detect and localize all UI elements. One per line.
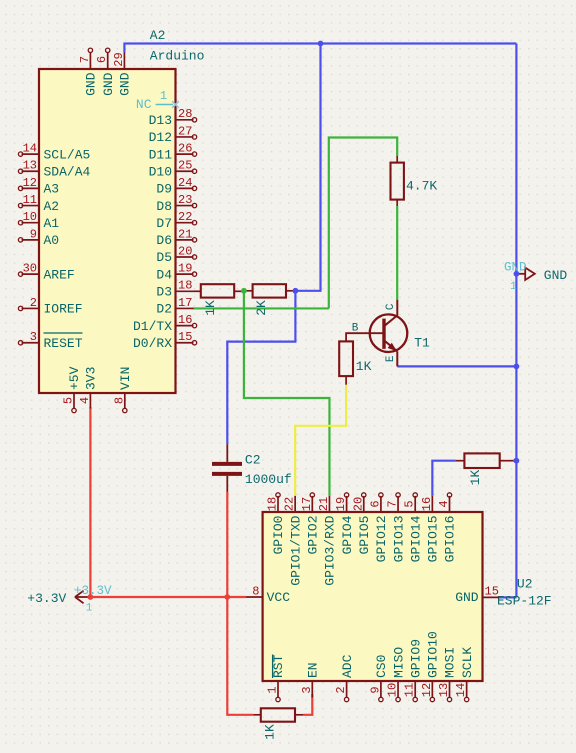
power +3.3V symbol bbox=[75, 591, 90, 604]
wire GND net mid vertical bbox=[319, 44, 321, 291]
wire divider tap to GPIO3/RXD bbox=[244, 291, 330, 496]
svg-text:U2: U2 bbox=[517, 577, 533, 592]
IC U2 ESP-12F body bbox=[263, 512, 483, 681]
svg-text:17: 17 bbox=[300, 497, 314, 511]
svg-text:D10: D10 bbox=[149, 164, 172, 179]
svg-text:GPIO13: GPIO13 bbox=[391, 516, 406, 563]
svg-text:GPIO3/RXD: GPIO3/RXD bbox=[323, 515, 338, 585]
svg-text:4: 4 bbox=[437, 500, 451, 507]
resistor 1K GPIO15 pulldown bbox=[456, 460, 465, 462]
svg-text:11: 11 bbox=[403, 683, 417, 697]
junction divider tap bbox=[241, 288, 247, 294]
wire divider mid to vertical bbox=[295, 290, 321, 292]
svg-text:13: 13 bbox=[437, 683, 451, 697]
svg-text:1K: 1K bbox=[356, 359, 372, 374]
svg-text:26: 26 bbox=[178, 142, 192, 156]
svg-text:IOREF: IOREF bbox=[44, 302, 83, 317]
svg-text:3: 3 bbox=[30, 330, 37, 344]
svg-text:3V3: 3V3 bbox=[84, 367, 99, 390]
pin 12 GPIO10 bbox=[431, 681, 433, 698]
pin 8 VCC bbox=[246, 596, 263, 598]
pin 23 D8 bbox=[176, 205, 194, 207]
svg-text:14: 14 bbox=[454, 683, 468, 697]
svg-text:2K: 2K bbox=[254, 300, 269, 316]
pin 19 D4 bbox=[176, 273, 194, 275]
pin 27 D12 bbox=[176, 136, 194, 138]
pin 11 GPIO9 bbox=[414, 681, 416, 698]
svg-text:6: 6 bbox=[368, 500, 382, 507]
svg-text:21: 21 bbox=[317, 497, 331, 511]
pin 13 SDA/A4 bbox=[22, 170, 40, 172]
svg-text:9: 9 bbox=[30, 227, 37, 241]
svg-text:D3: D3 bbox=[156, 285, 172, 300]
svg-text:RST: RST bbox=[271, 654, 286, 678]
svg-text:10: 10 bbox=[386, 683, 400, 697]
svg-text:13: 13 bbox=[23, 159, 37, 173]
svg-text:D9: D9 bbox=[156, 182, 172, 197]
pin 13 MOSI bbox=[449, 681, 451, 698]
svg-text:28: 28 bbox=[178, 107, 192, 121]
svg-text:SDA/A4: SDA/A4 bbox=[44, 164, 91, 179]
pin 14 SCLK bbox=[466, 681, 468, 698]
svg-text:16: 16 bbox=[420, 497, 434, 511]
wire GND net top horizontal bbox=[124, 42, 516, 44]
svg-text:D12: D12 bbox=[149, 130, 172, 145]
resistor 4.7K bbox=[396, 156, 398, 163]
svg-text:9: 9 bbox=[368, 686, 382, 693]
junction divider mid bbox=[293, 288, 299, 294]
svg-text:+5V: +5V bbox=[67, 366, 82, 390]
junction emitter GND bbox=[514, 364, 520, 370]
svg-text:1000uf: 1000uf bbox=[245, 472, 292, 487]
svg-text:5: 5 bbox=[62, 397, 76, 404]
pin 26 D11 bbox=[176, 153, 194, 155]
svg-text:CS0: CS0 bbox=[374, 655, 389, 678]
svg-text:GPIO4: GPIO4 bbox=[340, 515, 355, 554]
svg-text:4.7K: 4.7K bbox=[406, 178, 437, 193]
svg-text:12: 12 bbox=[23, 176, 37, 190]
pin 17 GPIO2 bbox=[311, 496, 313, 512]
svg-text:1: 1 bbox=[510, 281, 517, 293]
svg-text:D4: D4 bbox=[156, 267, 172, 282]
no-connect X bbox=[172, 101, 179, 108]
junction +3.3V bbox=[88, 594, 94, 600]
svg-text:27: 27 bbox=[178, 124, 192, 138]
pin 14 SCL/A5 bbox=[22, 153, 40, 155]
wire pin29 drop bbox=[123, 43, 125, 53]
svg-text:1: 1 bbox=[160, 89, 167, 103]
pin 24 D9 bbox=[176, 187, 194, 189]
svg-text:14: 14 bbox=[23, 142, 37, 156]
resistor 1K divider top bbox=[194, 290, 201, 292]
svg-text:GPIO2: GPIO2 bbox=[306, 516, 321, 555]
svg-text:20: 20 bbox=[351, 497, 365, 511]
pin 6 GPIO12 bbox=[380, 496, 382, 512]
transistor T1 bbox=[370, 300, 408, 367]
wire D2 to 4.7K bbox=[193, 307, 329, 309]
svg-text:7: 7 bbox=[386, 500, 400, 507]
svg-text:AREF: AREF bbox=[44, 267, 75, 282]
svg-text:A2: A2 bbox=[44, 199, 60, 214]
svg-text:21: 21 bbox=[178, 227, 192, 241]
wire GND to ESP pin15 bbox=[499, 596, 516, 598]
wire emitter to GND bbox=[397, 365, 516, 367]
svg-text:1K: 1K bbox=[468, 470, 483, 486]
svg-text:GPIO12: GPIO12 bbox=[374, 516, 389, 563]
svg-text:24: 24 bbox=[178, 176, 192, 190]
svg-text:1K: 1K bbox=[263, 724, 278, 740]
pin 20 GPIO5 bbox=[363, 496, 365, 512]
svg-text:GPIO1/TXD: GPIO1/TXD bbox=[288, 515, 303, 585]
pin 16 D1/TX bbox=[176, 325, 194, 327]
pin 2 ADC bbox=[346, 681, 348, 698]
capacitor C2 bbox=[212, 444, 242, 492]
svg-text:1K: 1K bbox=[203, 300, 218, 316]
pin 19 GPIO4 bbox=[346, 496, 348, 512]
svg-text:SCLK: SCLK bbox=[460, 647, 475, 678]
svg-text:A1: A1 bbox=[44, 216, 60, 231]
svg-text:SCL/A5: SCL/A5 bbox=[44, 147, 91, 162]
pin 6 GND top bbox=[107, 53, 109, 70]
resistor 1K EN pullup bbox=[253, 714, 260, 716]
wire GPIO15 to R 1K bbox=[432, 461, 456, 496]
svg-text:EN: EN bbox=[306, 662, 321, 678]
wire green up bbox=[329, 138, 397, 309]
pin 8 VIN bottom bbox=[124, 393, 126, 409]
svg-text:30: 30 bbox=[23, 262, 37, 276]
svg-text:19: 19 bbox=[334, 497, 348, 511]
junction GND symbol bbox=[514, 271, 520, 277]
pin 18 GPIO0 bbox=[277, 496, 279, 512]
svg-text:6: 6 bbox=[95, 56, 109, 63]
svg-text:18: 18 bbox=[178, 279, 192, 293]
svg-text:Arduino: Arduino bbox=[150, 49, 205, 64]
svg-text:C2: C2 bbox=[245, 453, 261, 468]
svg-text:ESP-12F: ESP-12F bbox=[497, 594, 552, 609]
junction 1K GND net bbox=[514, 458, 520, 464]
svg-text:T1: T1 bbox=[414, 336, 430, 351]
svg-text:ADC: ADC bbox=[340, 654, 355, 678]
pin 4 3V3 bottom bbox=[89, 393, 91, 409]
pin 22 GPIO1/TXD bbox=[294, 496, 296, 512]
svg-text:2: 2 bbox=[30, 296, 37, 310]
resistor 2K divider bottom bbox=[244, 290, 253, 292]
svg-text:16: 16 bbox=[178, 313, 192, 327]
pin 18 D3 bbox=[176, 290, 194, 292]
svg-text:A3: A3 bbox=[44, 182, 60, 197]
svg-text:C: C bbox=[385, 303, 397, 310]
pin 20 D5 bbox=[176, 256, 194, 258]
svg-text:GPIO15: GPIO15 bbox=[426, 516, 441, 563]
svg-text:D7: D7 bbox=[156, 216, 172, 231]
pin 12 A3 bbox=[22, 187, 40, 189]
pin 25 D10 bbox=[176, 170, 194, 172]
svg-text:GND: GND bbox=[118, 72, 133, 96]
svg-text:MISO: MISO bbox=[391, 647, 406, 678]
wire divider mid to C2 bbox=[227, 291, 295, 444]
svg-text:1: 1 bbox=[86, 603, 93, 615]
svg-text:+3.3V: +3.3V bbox=[27, 591, 66, 606]
pin 16 GPIO15 bbox=[431, 496, 433, 512]
pin 3 EN bbox=[311, 681, 313, 698]
pin 9 A0 bbox=[22, 239, 40, 241]
svg-text:VCC: VCC bbox=[267, 590, 291, 605]
wire +3.3V to VCC bbox=[90, 596, 245, 598]
svg-text:5: 5 bbox=[403, 500, 417, 507]
svg-text:GND: GND bbox=[101, 72, 116, 96]
pin 2 IOREF bbox=[22, 307, 40, 309]
svg-text:29: 29 bbox=[112, 52, 126, 66]
svg-text:D13: D13 bbox=[149, 113, 172, 128]
pin 15 D0/RX bbox=[176, 342, 194, 344]
wire GND net right vertical bbox=[515, 44, 517, 598]
svg-text:8: 8 bbox=[252, 584, 259, 598]
junction VCC bbox=[224, 594, 230, 600]
svg-text:D11: D11 bbox=[149, 147, 173, 162]
wire bottom 1K to EN bbox=[303, 694, 312, 715]
svg-text:22: 22 bbox=[178, 210, 192, 224]
junction top GND net bbox=[318, 41, 324, 47]
svg-text:2: 2 bbox=[334, 686, 348, 693]
svg-text:8: 8 bbox=[112, 397, 126, 404]
pin 11 A2 bbox=[22, 205, 40, 207]
svg-text:D2: D2 bbox=[156, 302, 172, 317]
svg-text:D1/TX: D1/TX bbox=[133, 319, 172, 334]
pin 9 CS0 bbox=[380, 681, 382, 698]
svg-text:25: 25 bbox=[178, 159, 192, 173]
pin 5 +5V bottom bbox=[73, 393, 75, 409]
wire 4.7K to collector bbox=[396, 206, 398, 300]
svg-text:19: 19 bbox=[178, 262, 192, 276]
svg-text:22: 22 bbox=[283, 497, 297, 511]
svg-text:A0: A0 bbox=[44, 233, 60, 248]
svg-text:3: 3 bbox=[300, 686, 314, 693]
svg-text:GPIO0: GPIO0 bbox=[271, 516, 286, 555]
pin 5 GPIO14 bbox=[414, 496, 416, 512]
svg-text:D0/RX: D0/RX bbox=[133, 336, 172, 351]
pin 4 GPIO16 bbox=[449, 496, 451, 512]
svg-text:20: 20 bbox=[178, 244, 192, 258]
svg-text:NC: NC bbox=[136, 97, 152, 112]
wire base resistor to GPIO1/TXD bbox=[295, 385, 346, 496]
svg-text:15: 15 bbox=[178, 330, 192, 344]
pin 28 D13 bbox=[176, 119, 194, 121]
pin 10 MISO bbox=[397, 681, 399, 698]
IC Arduino body bbox=[39, 69, 176, 393]
pin 7 GPIO13 bbox=[397, 496, 399, 512]
pin 1 RST bbox=[277, 681, 279, 698]
svg-text:MOSI: MOSI bbox=[443, 647, 458, 678]
svg-text:E: E bbox=[385, 355, 397, 362]
svg-text:15: 15 bbox=[485, 584, 499, 598]
pin 21 GPIO3/RXD bbox=[328, 496, 330, 512]
svg-text:18: 18 bbox=[266, 497, 280, 511]
svg-text:GND: GND bbox=[455, 590, 479, 605]
pin 3 RESET bbox=[22, 342, 40, 344]
svg-text:10: 10 bbox=[23, 210, 37, 224]
wire VCC junction down bbox=[227, 597, 253, 715]
wire 3V3 down bbox=[89, 407, 91, 597]
svg-text:GPIO16: GPIO16 bbox=[443, 516, 458, 563]
svg-text:11: 11 bbox=[23, 193, 37, 207]
pin 10 A1 bbox=[22, 222, 40, 224]
svg-text:4: 4 bbox=[78, 397, 92, 404]
resistor 1K base bbox=[346, 333, 384, 341]
svg-text:GPIO5: GPIO5 bbox=[357, 516, 372, 555]
pin 21 D6 bbox=[176, 239, 194, 241]
wire VCC junction to C2 bbox=[226, 492, 228, 597]
svg-text:GND: GND bbox=[84, 72, 99, 96]
pin 29 GND top bbox=[123, 53, 125, 70]
pin 15 GND bbox=[483, 596, 500, 598]
power GND symbol bbox=[516, 268, 534, 280]
pin 7 GND top bbox=[89, 53, 91, 70]
pin 30 AREF bbox=[22, 273, 40, 275]
pin 17 D2 bbox=[176, 307, 194, 309]
svg-text:D8: D8 bbox=[156, 199, 172, 214]
svg-text:A2: A2 bbox=[150, 28, 166, 43]
svg-text:17: 17 bbox=[178, 296, 192, 310]
svg-text:23: 23 bbox=[178, 193, 192, 207]
pin 22 D7 bbox=[176, 222, 194, 224]
svg-text:GPIO9: GPIO9 bbox=[408, 639, 423, 678]
svg-text:RESET: RESET bbox=[44, 336, 83, 351]
svg-text:1: 1 bbox=[266, 686, 280, 693]
svg-text:GPIO10: GPIO10 bbox=[426, 631, 441, 678]
svg-text:7: 7 bbox=[78, 56, 92, 63]
svg-text:VIN: VIN bbox=[118, 367, 133, 390]
svg-text:D6: D6 bbox=[156, 233, 172, 248]
svg-text:12: 12 bbox=[420, 683, 434, 697]
svg-text:D5: D5 bbox=[156, 250, 172, 265]
wire R 1K to GND net bbox=[513, 460, 516, 462]
svg-text:GPIO14: GPIO14 bbox=[408, 515, 423, 562]
pin 1 NC bbox=[156, 104, 173, 106]
svg-text:GND: GND bbox=[544, 268, 568, 283]
